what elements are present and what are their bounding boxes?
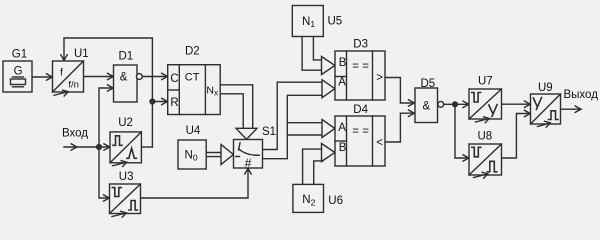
wire D5 out to U8 (455, 104, 469, 161)
shaper U2 (110, 132, 141, 167)
wire D2 Nx output bus lower (220, 94, 243, 130)
svg-text:U2: U2 (118, 117, 133, 129)
svg-text:D1: D1 (119, 50, 134, 62)
svg-text:D5: D5 (421, 78, 436, 90)
svg-text:U7: U7 (478, 76, 493, 88)
shaper U3 (110, 184, 141, 217)
wire bus U4 to S1 (206, 145, 233, 165)
svg-text:B: B (339, 142, 347, 154)
selector S1 (234, 140, 263, 169)
counter D2 (168, 65, 221, 115)
svg-text:CT: CT (185, 71, 200, 83)
generator G1 (3, 61, 32, 92)
svg-text:= =: = = (352, 60, 369, 72)
svg-text:U9: U9 (538, 82, 553, 94)
svg-text:B: B (339, 57, 347, 69)
svg-text:U3: U3 (119, 171, 134, 183)
bus arrow into D3 A (322, 80, 335, 98)
svg-text:<: < (376, 137, 383, 149)
svg-text:U5: U5 (328, 16, 343, 28)
wire output (561, 106, 582, 112)
svg-text:G: G (14, 65, 23, 77)
svg-text:&: & (120, 72, 128, 84)
bus arrow into D4 A (322, 120, 335, 138)
comparator D4 (335, 116, 385, 166)
wire S1 out to comparators lower (263, 95, 324, 158)
wire U7 to U9 (502, 101, 531, 107)
svg-text:>: > (376, 72, 383, 84)
wire bus U6 to D4 B (303, 144, 335, 185)
svg-text:#: # (245, 156, 252, 170)
svg-text:D2: D2 (185, 45, 200, 57)
wire input to D1 second input (99, 85, 114, 147)
wire U8 to U9 (502, 110, 531, 158)
junction node input (97, 145, 102, 150)
wire D5 to U7 (444, 101, 469, 107)
bus arrow into S1 top (236, 128, 257, 139)
svg-text:Вход: Вход (62, 128, 88, 140)
wire S1 out to D3 A upper (263, 82, 324, 149)
and-gate D5 (415, 88, 444, 123)
svg-text:S1: S1 (262, 126, 276, 138)
wire branch to D4 A lower (287, 134, 323, 136)
svg-text:R: R (170, 97, 178, 109)
svg-text:U6: U6 (328, 195, 343, 207)
comparator D3 (335, 51, 385, 100)
wire Вход input line (64, 144, 110, 150)
svg-text:U1: U1 (74, 48, 89, 60)
and-gate D1 (114, 65, 143, 102)
svg-text:f/n: f/n (68, 80, 79, 91)
svg-text:C: C (170, 73, 178, 85)
junction node D5 out (453, 102, 458, 107)
svg-text:A: A (338, 77, 346, 89)
shaper U8 (469, 144, 502, 178)
shaper U9 (531, 94, 561, 127)
wire U1 to D1 (84, 73, 114, 79)
wire U3 to S1 control (141, 168, 252, 198)
wire feedback U2 to U1 top (61, 38, 153, 147)
wire input to U3 (99, 147, 110, 201)
wire D4 output to D5 (385, 110, 415, 142)
wire U2 output (141, 146, 152, 148)
svg-text:D4: D4 (353, 104, 368, 116)
wire to D2 R input (152, 98, 167, 104)
wire D1 to D2 C input (142, 73, 168, 79)
svg-text:A: A (338, 122, 346, 134)
svg-text:D3: D3 (353, 39, 368, 51)
ref U6 (293, 184, 324, 212)
svg-text:Выход: Выход (564, 89, 599, 101)
svg-text:G1: G1 (12, 48, 27, 60)
junction node R (150, 99, 155, 104)
wire branch to D4 A upper (287, 122, 323, 124)
wire D2 Nx output bus upper (220, 85, 253, 130)
svg-text:&: & (423, 101, 431, 113)
wire G1 to U1 (32, 74, 53, 80)
wire D3 output to D5 (385, 78, 415, 107)
wire bus U5 to D3 B (302, 37, 335, 75)
svg-text:U4: U4 (186, 125, 201, 137)
ref U5 (292, 6, 323, 37)
shaper U7 (469, 89, 502, 123)
svg-text:f: f (60, 67, 63, 79)
divider U1 (53, 61, 84, 96)
svg-text:= =: = = (352, 125, 369, 137)
svg-text:U8: U8 (478, 131, 493, 143)
register U4 (178, 140, 206, 169)
